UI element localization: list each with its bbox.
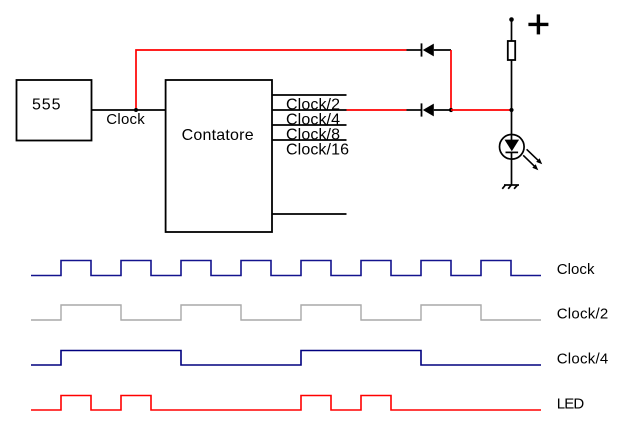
svg-text:Clock/16: Clock/16 — [286, 141, 349, 158]
svg-text:555: 555 — [32, 97, 61, 114]
svg-text:LED: LED — [557, 396, 585, 413]
svg-text:Contatore: Contatore — [182, 127, 254, 144]
svg-text:Clock/2: Clock/2 — [557, 306, 609, 323]
svg-text:Clock: Clock — [557, 261, 595, 278]
svg-text:Clock/4: Clock/4 — [557, 351, 609, 368]
svg-text:Clock: Clock — [106, 111, 145, 128]
